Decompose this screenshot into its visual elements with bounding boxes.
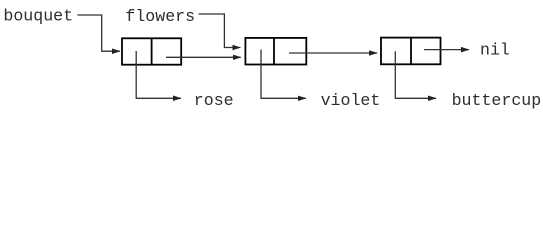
cons cell 2 box [245,38,306,65]
wire cell 2 cdr arrow to cell 3 [289,52,377,54]
svg-text:flowers: flowers [125,7,195,26]
wire cell 1 car pointer (down, right, arrow to rose) [136,51,181,98]
cons cell 3 box [381,38,441,65]
cons cell 2 divider [273,38,275,65]
svg-text:buttercup: buttercup [452,91,542,110]
svg-text:bouquet: bouquet [3,6,73,25]
cons cell 1 divider [151,38,153,64]
cons cell 3 divider [410,38,412,65]
wire cell 3 cdr arrow to nil [424,49,469,51]
wire flowers lead (right, down, arrow into cell 2) [199,14,241,48]
wire bouquet lead (right, down, arrow into cell 1) [78,15,121,51]
svg-text:rose: rose [194,91,234,110]
svg-text:violet: violet [321,91,381,110]
cons cell 1 box [122,38,181,64]
wire cell 2 car pointer (down, right, arrow to violet) [261,50,306,99]
wire cell 1 cdr arrow to cell 2 [166,56,241,58]
svg-text:nil: nil [480,41,510,60]
wire cell 3 car pointer (down, right, arrow to buttercup) [395,51,436,98]
